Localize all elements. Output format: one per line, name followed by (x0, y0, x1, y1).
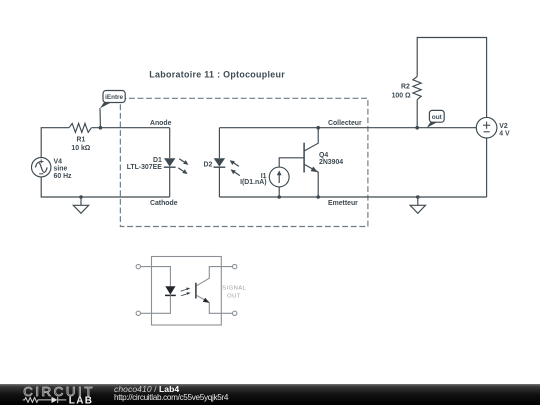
svg-text:Cathode: Cathode (150, 200, 178, 207)
svg-text:Anode: Anode (150, 120, 172, 127)
opto terminal top-right (233, 264, 237, 268)
photodiode D2 incident light arrows (230, 160, 240, 175)
wire I1 bottom (278, 187, 280, 197)
svg-text:2N3904: 2N3904 (319, 159, 343, 166)
node junction Q4 emitter (316, 195, 320, 199)
wire bottom left loop (41, 177, 170, 197)
wire D2 anode top (218, 128, 220, 158)
opto internal LED (165, 286, 176, 295)
wire R1 to anode corner (92, 127, 170, 129)
node junction out tap (415, 126, 419, 130)
node junction iEntre tap (99, 126, 103, 130)
svg-text:Laboratoire 11 : Optocoupleur: Laboratoire 11 : Optocoupleur (149, 70, 285, 80)
ground right (410, 197, 425, 213)
voltage source V2 (476, 117, 497, 138)
svg-text:out: out (432, 114, 443, 121)
wire anode down to D1 (169, 128, 171, 158)
svg-text:LTL-307EE: LTL-307EE (127, 164, 163, 171)
transistor Q4 (304, 128, 318, 197)
wire R2 top loop (417, 38, 486, 118)
wire R2 branch lower (416, 100, 418, 128)
node junction ground right (416, 195, 420, 199)
svg-text:100 Ω: 100 Ω (392, 93, 411, 100)
node junction ground left (79, 195, 83, 199)
opto terminal bottom-right (233, 311, 237, 315)
node junction Q4 collector (316, 126, 320, 130)
svg-text:V2: V2 (499, 123, 508, 130)
resistor R2 (413, 77, 421, 100)
wire D2 cathode down (218, 167, 220, 197)
wire emitter net bottom (219, 196, 486, 198)
svg-text:D2: D2 (203, 161, 212, 168)
svg-text:10 kΩ: 10 kΩ (71, 145, 90, 152)
svg-text:Collecteur: Collecteur (328, 120, 362, 127)
dashed subcircuit boundary box (120, 98, 368, 226)
net flag out (427, 110, 445, 128)
current source I1 (269, 167, 289, 187)
svg-text:D1: D1 (153, 157, 162, 164)
opto phototransistor (196, 267, 233, 314)
decorative optocoupler package drawing (136, 257, 247, 326)
svg-text:iEntre: iEntre (105, 94, 123, 101)
opto light arrows (181, 288, 191, 296)
svg-text:4 V: 4 V (499, 130, 510, 137)
svg-text:http://circuitlab.com/c55ve5yq: http://circuitlab.com/c55ve5yqjk5r4 (114, 393, 229, 402)
wire D1 cathode down (169, 167, 171, 197)
node junction I1 bottom (277, 195, 281, 199)
logo squiggle resistor and diode (23, 397, 67, 403)
wire V2 bottom (486, 138, 488, 197)
svg-text:sine: sine (54, 166, 68, 173)
opto package outline (152, 257, 222, 326)
svg-text:Emetteur: Emetteur (328, 200, 358, 207)
LED D1 (164, 158, 176, 167)
opto wire anode (141, 267, 171, 287)
opto terminal top-left (136, 264, 140, 268)
svg-text:60 Hz: 60 Hz (54, 173, 73, 180)
wire V4 top to R1 (41, 128, 69, 158)
svg-text:OUT: OUT (227, 293, 241, 299)
svg-text:R2: R2 (401, 84, 410, 91)
opto wire cathode (141, 295, 171, 313)
voltage source V4 (32, 158, 51, 177)
opto terminal bottom-left (136, 311, 140, 315)
photodiode D2 (214, 158, 226, 167)
svg-text:Q4: Q4 (319, 152, 328, 159)
wire out node to V2 (417, 127, 476, 129)
ground left (73, 197, 88, 213)
svg-text:R1: R1 (77, 137, 86, 144)
net flag iEntre (100, 91, 125, 127)
svg-text:LAB: LAB (69, 395, 93, 405)
svg-text:I(D1.nA): I(D1.nA) (240, 179, 266, 186)
svg-text:V4: V4 (54, 158, 63, 165)
wire collector net top (219, 127, 417, 129)
resistor R1 (69, 123, 91, 132)
LED D1 emission arrows (178, 159, 188, 174)
wire I1 top to Q4 base (279, 158, 304, 167)
svg-text:SIGNAL: SIGNAL (222, 286, 247, 292)
footer bar (0, 384, 540, 405)
